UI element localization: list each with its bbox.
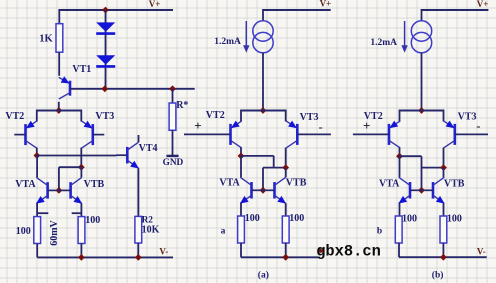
wire VTA emitter to R <box>36 203 38 216</box>
svg-text:V+: V+ <box>149 0 161 9</box>
wire VTAr collector <box>399 156 401 177</box>
label VT2 right <box>364 111 383 122</box>
diode D2 <box>96 55 115 66</box>
svg-text:VT4: VT4 <box>139 143 158 154</box>
label VTA <box>15 179 36 190</box>
wire VT4 collector stub <box>138 135 140 142</box>
svg-text:-: - <box>476 119 480 133</box>
label 1.2mA middle <box>214 37 241 47</box>
svg-text:VT3: VT3 <box>458 112 477 123</box>
node junction VT3e-VTB <box>78 164 85 171</box>
wire VTBm collector <box>285 168 287 178</box>
svg-text:(b): (b) <box>432 270 444 281</box>
svg-text:VTB: VTB <box>84 179 105 190</box>
label VT3 middle <box>300 112 319 123</box>
label VT4 <box>139 143 158 154</box>
wire VT2m emitter lead <box>240 148 242 156</box>
svg-text:VT1: VT1 <box>72 64 91 75</box>
svg-text:100: 100 <box>245 213 260 224</box>
svg-text:10K: 10K <box>142 225 160 236</box>
node junction VT2e-VTA <box>34 152 41 159</box>
wire cross-couple horizontal <box>59 166 81 168</box>
current source I1 1.2mA <box>243 9 331 111</box>
node junction cs-VT2-VT3 right <box>418 107 425 114</box>
label + middle <box>194 118 201 133</box>
watermark gbx8.cn <box>316 243 381 261</box>
label 100 right-left <box>402 214 417 225</box>
transistor VT3 middle <box>286 121 331 148</box>
power label V+ middle <box>320 0 332 9</box>
svg-text:R*: R* <box>176 100 188 111</box>
label VTB right <box>444 178 465 189</box>
node junction diode-string top <box>102 7 109 14</box>
power label V- right <box>477 247 486 257</box>
svg-text:100: 100 <box>402 214 417 225</box>
label 100 middle-left <box>245 213 260 224</box>
wire VTBm emitter lead <box>285 203 287 216</box>
svg-text:+: + <box>194 118 201 133</box>
transistor VTA <box>36 177 59 203</box>
label 100 middle-right <box>289 213 304 224</box>
svg-text:VTA: VTA <box>219 178 240 189</box>
wire 60mV spur right <box>72 212 82 214</box>
wire VTBr collector <box>443 168 445 178</box>
wire VT2 emitter lead <box>36 148 38 156</box>
svg-text:VTB: VTB <box>444 178 465 189</box>
svg-text:1K: 1K <box>39 33 53 44</box>
caption (a) <box>258 270 269 281</box>
label VT1 <box>72 64 91 75</box>
current source I2 1.2mA <box>401 9 488 111</box>
power label V+ left <box>149 0 161 9</box>
wire VT1 collector <box>58 102 60 111</box>
label VTB middle <box>286 178 307 189</box>
svg-text:gbx8.cn: gbx8.cn <box>316 243 381 261</box>
label node b <box>377 227 382 237</box>
wire step to bases middle <box>262 168 264 191</box>
label 100 right-right <box>447 214 462 225</box>
wire 60mV spur left <box>37 212 48 214</box>
transistor VT4 <box>116 142 139 168</box>
wire VTB collector <box>80 167 82 177</box>
label 100 mid <box>85 215 100 226</box>
svg-text:V-: V- <box>159 246 168 256</box>
node junction R/V- right <box>440 254 447 261</box>
resistor R 100 (VTBr) <box>440 216 447 243</box>
wire rail y110 left <box>37 110 82 112</box>
power label V- left <box>159 246 168 256</box>
svg-text:V+: V+ <box>320 0 332 9</box>
svg-text:60mV: 60mV <box>49 219 60 245</box>
wire 1K top lead <box>58 9 60 24</box>
svg-text:1.2mA: 1.2mA <box>370 38 397 48</box>
label 1K <box>39 33 53 44</box>
wire rail y110 middle <box>241 110 286 112</box>
wire VT2m collector lead <box>240 110 242 122</box>
label VT3 <box>95 111 114 122</box>
label 1.2mA right <box>370 38 397 48</box>
wire step down middle <box>273 156 275 168</box>
transistor VT1 <box>59 76 70 99</box>
svg-text:VTA: VTA <box>15 179 36 190</box>
label R2 <box>142 216 154 226</box>
caption (b) <box>432 270 444 281</box>
svg-text:b: b <box>377 227 382 237</box>
label VTB <box>84 179 105 190</box>
wire R bottom lead ar <box>398 243 400 257</box>
svg-text:VT3: VT3 <box>300 112 319 123</box>
wire VTAm collector <box>240 156 242 177</box>
node junction VTA-VTB bases <box>56 187 63 194</box>
transistor VTA middle <box>240 177 263 203</box>
resistor R 100 (VTBm) <box>282 216 289 243</box>
label - right <box>476 119 480 133</box>
node junction R2/V- <box>135 254 142 261</box>
wire R2 bottom lead <box>137 243 139 257</box>
transistor VTA right <box>398 177 421 203</box>
wire VT4 emitter to R2 <box>137 168 139 216</box>
svg-text:(a): (a) <box>258 270 269 281</box>
resistor R 100 (VTAm) <box>238 216 245 243</box>
wire VT3r collector lead <box>443 110 445 122</box>
wire cross-couple vertical <box>58 167 60 190</box>
wire V- rail left <box>37 256 173 258</box>
resistor R 1K <box>56 24 63 53</box>
svg-text:100: 100 <box>289 213 304 224</box>
node junction VT3me <box>282 164 289 171</box>
svg-text:VTB: VTB <box>286 178 307 189</box>
label 10K <box>142 225 160 236</box>
node junction VT2re <box>396 153 403 160</box>
svg-text:a: a <box>221 226 226 236</box>
svg-text:VT3: VT3 <box>95 111 114 122</box>
resistor R* <box>169 103 176 130</box>
ground GND <box>163 156 184 168</box>
svg-text:GND: GND <box>163 158 184 168</box>
wire VT2r collector lead <box>399 110 401 122</box>
label 60mV <box>49 219 60 245</box>
wire R100b bottom lead <box>80 244 82 258</box>
wire VTBr emitter lead <box>443 203 445 216</box>
power label V- middle (behind watermark) <box>319 248 323 253</box>
svg-text:100: 100 <box>85 215 100 226</box>
wire VT3r emitter lead <box>443 148 445 168</box>
node junction VTAm-VTBm bases <box>260 187 267 194</box>
wire VTAr emitter lead <box>399 203 401 216</box>
wire VT3m collector lead <box>285 110 287 122</box>
svg-text:+: + <box>363 118 370 133</box>
label VT2 <box>5 111 24 122</box>
wire VT2r emitter lead <box>399 148 401 157</box>
label R* <box>176 100 188 111</box>
node junction R* top <box>169 85 176 92</box>
label - middle <box>319 120 323 134</box>
wire VTA collector <box>36 156 38 178</box>
diode D1 <box>96 22 115 33</box>
power label V+ right <box>477 0 489 9</box>
transistor VT2 middle <box>184 121 242 148</box>
transistor VTB middle <box>263 177 286 203</box>
node junction VT2me <box>238 153 245 160</box>
svg-text:VT2: VT2 <box>206 110 225 121</box>
wire R bottom lead bm <box>285 243 287 257</box>
wire rail y156 right <box>400 155 422 157</box>
svg-text:VTA: VTA <box>379 178 400 189</box>
label node a <box>221 226 226 236</box>
wire VT2 collector lead <box>36 110 38 122</box>
wire R bottom lead am <box>240 243 242 257</box>
transistor VT3 right <box>444 121 488 148</box>
wire step horizontal right <box>422 167 444 169</box>
label 100 left <box>16 226 31 237</box>
wire R bottom lead br <box>442 243 444 257</box>
label + right <box>363 118 370 133</box>
wire step to bases right <box>421 156 423 190</box>
wire V- rail middle <box>241 256 318 258</box>
resistor R 100 (VTA) <box>34 217 41 244</box>
node junction VT3re <box>440 164 447 171</box>
transistor VT2 <box>14 121 36 148</box>
transistor VT3 <box>82 121 105 148</box>
wire VTB emitter to R <box>80 203 82 216</box>
label VT3 right <box>458 112 477 123</box>
label VTA right <box>379 178 400 189</box>
svg-text:V-: V- <box>477 247 486 257</box>
wire V+ rail left <box>59 9 173 11</box>
resistor R 100 (VTB) <box>78 217 85 244</box>
resistor R 100 (VTAr) <box>395 216 402 243</box>
wire V- rail right <box>399 256 487 258</box>
wire VT3 collector lead <box>80 110 82 122</box>
transistor VT2 right <box>353 121 400 148</box>
svg-text:100: 100 <box>447 214 462 225</box>
wire step horizontal middle <box>263 167 286 169</box>
node junction R/V- middle <box>282 254 289 261</box>
label VTA middle <box>219 178 240 189</box>
wire 1K bottom to VT1 emitter <box>58 52 60 76</box>
wire VT3m emitter lead <box>285 148 287 168</box>
wire R100a bottom lead <box>36 244 38 258</box>
resistor R2 10K <box>135 216 142 243</box>
svg-text:-: - <box>319 120 323 134</box>
node junction R100b/V- <box>78 254 85 261</box>
wire base rail y89 <box>70 88 195 90</box>
node junction diode bottom <box>101 85 108 92</box>
wire R* bottom to ground <box>172 130 174 155</box>
node junction VTAr-VTBr bases <box>418 187 425 194</box>
svg-text:V+: V+ <box>477 0 489 9</box>
svg-text:VT2: VT2 <box>5 111 24 122</box>
transistor VTB <box>59 177 82 203</box>
node junction cs-VT2-VT3 middle <box>260 107 267 114</box>
svg-text:1.2mA: 1.2mA <box>214 37 241 47</box>
wire diode string vertical <box>105 10 107 89</box>
wire rail y110 right <box>400 110 444 112</box>
wire VTAm emitter lead <box>240 203 242 216</box>
transistor VTB right <box>422 177 445 203</box>
node junction VT1-VT2-VT3 <box>55 107 62 114</box>
wire VT3 emitter lead <box>80 148 82 168</box>
wire rail y156 middle <box>241 155 274 157</box>
wire R* top lead <box>172 89 174 103</box>
wire rail y155 to VT4 base <box>37 155 116 157</box>
label VT2 middle <box>206 110 225 121</box>
svg-text:100: 100 <box>16 226 31 237</box>
